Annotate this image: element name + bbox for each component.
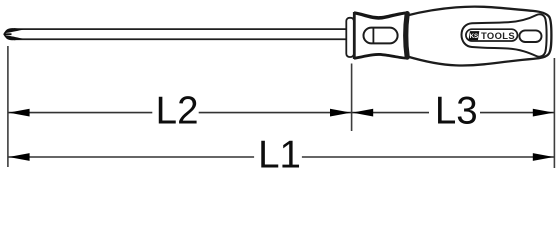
arrow L3 right [533, 109, 554, 117]
collar recess stadium [364, 28, 398, 44]
KS block [469, 31, 480, 40]
extension line right [553, 58, 555, 168]
dimension line L2 [8, 112, 152, 114]
dimension line L3 [352, 112, 429, 114]
handle face panel [462, 14, 547, 56]
phillips tip [4, 28, 23, 40]
lower groove wedge [5, 35, 24, 40]
arrow L2 left [9, 109, 30, 117]
extension line middle [351, 64, 353, 132]
svg-text:KS: KS [470, 33, 479, 40]
collar left edge [353, 12, 356, 59]
extension line left [7, 46, 9, 167]
upper groove wedge [5, 28, 24, 33]
svg-text:L1: L1 [258, 133, 301, 176]
arrow L1 left [9, 153, 30, 161]
arrow L2 right [330, 109, 351, 117]
svg-text:L3: L3 [435, 89, 478, 132]
collar top band [354, 11, 406, 19]
ferrule end cap [346, 18, 354, 57]
dimension line L1 [8, 156, 254, 158]
collar body [353, 11, 407, 59]
svg-text:TOOLS: TOOLS [481, 30, 515, 41]
arrow L1 right [533, 153, 554, 161]
handle body [407, 7, 551, 66]
small oval recess [519, 30, 541, 42]
collar bottom band [354, 53, 406, 60]
collar recess divider [372, 28, 374, 43]
arrow L3 left [352, 109, 373, 117]
collar/handle junction band [406, 14, 408, 58]
KS TOOLS logo stadium [466, 29, 518, 41]
shaft [14, 29, 347, 39]
svg-text:L2: L2 [156, 89, 199, 132]
center recess mark [4, 33, 11, 35]
